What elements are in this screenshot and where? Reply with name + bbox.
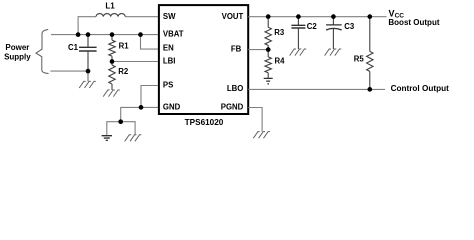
svg-text:Supply: Supply (4, 52, 31, 61)
label R1 (119, 42, 130, 51)
wire VBAT rail (51, 34, 159, 36)
svg-text:PS: PS (163, 81, 173, 90)
brace power supply (36, 30, 49, 74)
capacitor C3 plates (326, 25, 342, 30)
pin SW (163, 12, 176, 21)
pin VOUT (222, 12, 244, 21)
svg-text:Control Output: Control Output (391, 84, 449, 93)
svg-text:R5: R5 (354, 54, 365, 63)
resistor R4 (265, 50, 271, 79)
pin PS (163, 81, 173, 90)
wire GND pin (121, 107, 159, 121)
svg-text:R2: R2 (118, 67, 129, 76)
wire PS branch (141, 86, 159, 108)
ground hatched below R2 (103, 90, 120, 97)
svg-text:LBO: LBO (227, 84, 243, 93)
pin PGND (221, 102, 244, 111)
node junction dots left side (76, 32, 144, 124)
label R4 (275, 57, 286, 66)
inductor L1 (96, 14, 125, 17)
resistor R2 (109, 62, 115, 91)
label Boost Output (388, 18, 439, 27)
svg-text:R1: R1 (119, 42, 130, 51)
label R3 (274, 28, 285, 37)
label R5 (354, 54, 365, 63)
op-amp U1 TPS61020 box (159, 5, 248, 114)
svg-text:C2: C2 (307, 22, 318, 31)
pin GND (163, 102, 181, 111)
wire VOUT line (248, 16, 386, 18)
label Power Supply (4, 43, 31, 61)
ground hatched bottom-left (125, 135, 142, 142)
node junction dots right side (266, 14, 372, 91)
capacitor C2 plates (291, 25, 305, 28)
ground earth below R4 (264, 78, 273, 83)
svg-text:Boost Output: Boost Output (388, 18, 439, 27)
svg-text:Power: Power (5, 43, 29, 52)
ground hatched below C3 (325, 49, 342, 56)
resistor R5 (367, 17, 373, 90)
ground hatched below C1 junction (79, 71, 96, 88)
label C1 (68, 43, 79, 52)
svg-text:R3: R3 (274, 28, 285, 37)
svg-text:C3: C3 (344, 22, 355, 31)
svg-text:SW: SW (163, 12, 176, 21)
wire PGND branch (248, 108, 262, 132)
label L1 (105, 1, 115, 10)
ground hatched below PGND (253, 132, 270, 139)
node Vcc (389, 8, 405, 19)
svg-text:TPS61020: TPS61020 (185, 118, 224, 127)
svg-text:GND: GND (163, 102, 181, 111)
wire LBO control line (248, 88, 385, 90)
pin FB (231, 44, 242, 53)
label C3 (344, 22, 355, 31)
svg-text:R4: R4 (275, 57, 286, 66)
capacitor C2 (297, 17, 299, 49)
wire inductor to VBAT rail corner (78, 17, 96, 35)
pin EN (163, 43, 174, 52)
resistor R3 (265, 17, 271, 50)
svg-text:L1: L1 (105, 1, 115, 10)
wire ground cluster (107, 122, 135, 136)
svg-text:EN: EN (163, 43, 174, 52)
label C2 (307, 22, 318, 31)
svg-text:VBAT: VBAT (163, 29, 184, 38)
resistor R1 (109, 35, 115, 62)
svg-text:VOUT: VOUT (222, 12, 244, 21)
label Control Output (391, 84, 449, 93)
capacitor C1 plates (79, 47, 97, 51)
svg-text:PGND: PGND (221, 102, 244, 111)
pin LBI (163, 57, 176, 66)
wire SW pin to inductor (125, 16, 159, 18)
svg-text:C1: C1 (68, 43, 79, 52)
label TPS61020 (185, 118, 224, 127)
wire FB (248, 49, 268, 51)
wire EN branch (141, 35, 159, 50)
wire power supply bottom rail (50, 70, 88, 72)
ground earth bottom-left (102, 136, 112, 141)
svg-text:FB: FB (231, 44, 242, 53)
ground hatched below C2 (290, 49, 307, 56)
pin VBAT (163, 29, 184, 38)
label R2 (118, 67, 129, 76)
capacitor C3 polarized (332, 17, 334, 49)
svg-text:LBI: LBI (163, 57, 176, 66)
wire LBI (112, 61, 159, 63)
pin LBO (227, 84, 243, 93)
capacitor C1 (87, 35, 89, 72)
